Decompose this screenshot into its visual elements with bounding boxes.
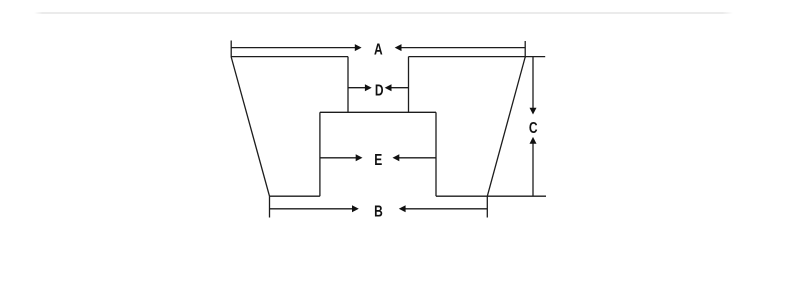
svg-text:D: D bbox=[375, 81, 384, 99]
svg-text:C: C bbox=[529, 118, 538, 136]
svg-text:E: E bbox=[374, 150, 382, 168]
svg-text:B: B bbox=[374, 202, 383, 220]
svg-text:A: A bbox=[374, 40, 383, 58]
